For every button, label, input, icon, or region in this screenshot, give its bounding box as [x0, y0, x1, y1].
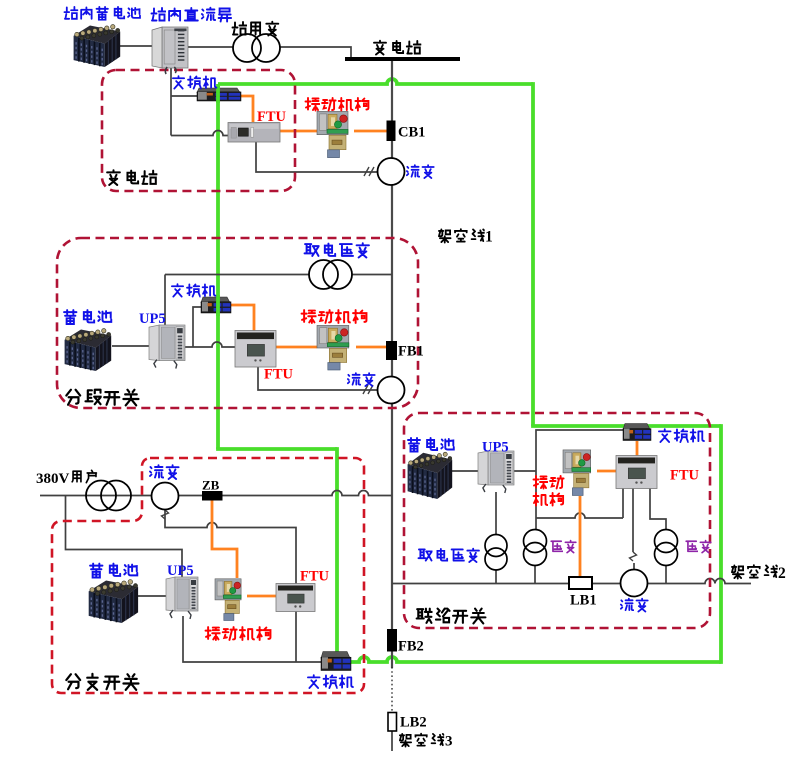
svg-text:FTU: FTU	[300, 569, 330, 585]
wire junction up to switch2	[193, 307, 201, 347]
battery 蓄电池 (联络)	[408, 452, 453, 499]
label 交换机 (联络)	[659, 429, 704, 442]
wire FTU2 bottom to CT2	[258, 367, 378, 390]
orange switch1 to FTU1	[240, 96, 253, 122]
PT 取电压变 (联络)	[485, 535, 507, 571]
wire battery3 to UP5	[138, 595, 166, 597]
green fiber over station switch	[216, 86, 220, 103]
green fiber right vertical lower	[719, 424, 723, 664]
380V feeder horizontal with hops	[40, 491, 392, 496]
CT 流变 (station)	[378, 158, 405, 185]
label 操动机构 (station)	[306, 98, 369, 111]
UPS UP5 (联络)	[478, 451, 514, 493]
main feeder vertical line	[391, 61, 393, 629]
battery 站内蓄电池	[74, 25, 121, 67]
wire DC panel down to switch and FTU	[171, 67, 228, 136]
label 操动机构 (分支)	[206, 627, 271, 640]
orange switch2 to FTU2	[231, 305, 254, 331]
svg-text:FTU: FTU	[670, 468, 700, 484]
label 流变 (分段)	[348, 373, 375, 386]
FTU (分支)	[276, 584, 315, 612]
label 分段开关	[66, 390, 138, 406]
svg-text:UP5: UP5	[167, 563, 194, 579]
label 取电压变 (联络)	[418, 549, 479, 562]
label 流变 (联络)	[621, 599, 648, 612]
label 交换机 (分段)	[172, 284, 216, 296]
operating mechanism 操动机构 (station)	[317, 111, 348, 157]
switch FB2	[387, 629, 397, 652]
DC panel 站内直流屏	[152, 27, 188, 74]
label 压变 2	[686, 541, 711, 553]
wire UP5 bottom to switch3	[183, 616, 321, 662]
wire battery4 to UP5-4	[452, 470, 478, 472]
transformer 380V用户	[86, 481, 131, 511]
battery 蓄电池 (分支)	[89, 580, 138, 623]
orange mech1 to CB1	[354, 130, 387, 133]
label 变电站 top	[374, 41, 421, 55]
label 蓄电池 (分支)	[90, 564, 137, 578]
label 蓄电池 (联络)	[408, 438, 454, 452]
svg-text:FB2: FB2	[398, 639, 424, 655]
squiggle below CT3	[162, 510, 169, 519]
wire horizontal to FTU4 with hop over orange	[536, 488, 623, 518]
CT 流变 (分段)	[378, 377, 405, 404]
label 变电站 box	[107, 170, 157, 185]
label 操动机构 (分段)	[302, 310, 367, 323]
wire FTU3 bottom to bus	[295, 611, 297, 662]
orange FTU2 to mech2	[276, 346, 317, 349]
UPS UP5 (分支)	[166, 577, 198, 619]
wire drop to UP5 branch	[66, 496, 183, 579]
slash marks on CT1 wire	[364, 167, 374, 176]
wire switch4 left loop	[536, 430, 623, 530]
ethernet switch 交换机 (分段)	[201, 297, 231, 313]
FTU (分段)	[235, 331, 276, 368]
UPS UP5 (分段)	[149, 325, 185, 369]
slash marks on CT2 wire	[363, 385, 373, 394]
circuit breaker CB1	[387, 121, 396, 142]
PT 取电压变 (分段)	[309, 260, 352, 289]
FTU (联络)	[616, 456, 657, 489]
wire UP5 to FTU2 with hop over green	[182, 342, 235, 347]
wire FB2 to line	[391, 651, 393, 668]
wire FTU4 right to PT2	[650, 488, 666, 530]
CT 流变 (分支)	[152, 483, 179, 510]
dashed box 变电站	[102, 70, 295, 191]
green fiber right vertical upper	[531, 82, 535, 426]
wire 取电压变 horizontal	[165, 275, 392, 329]
ethernet switch 交换机 (station)	[197, 88, 241, 101]
svg-text:FTU: FTU	[257, 109, 287, 125]
operating mechanism 操动机构 (分段)	[317, 325, 349, 370]
label 取电压变 (分段)	[305, 243, 369, 257]
orange mech4 down to LB1	[579, 496, 582, 577]
green fiber right horizontal	[531, 424, 721, 428]
label 操动机构 (联络)	[534, 476, 564, 489]
switch LB2	[388, 713, 397, 732]
label 流变 (station)	[407, 165, 434, 178]
label 架空线1	[439, 229, 484, 242]
svg-text:FTU: FTU	[264, 367, 294, 383]
CT 流变 (联络)	[621, 570, 648, 597]
label 站内蓄电池	[64, 7, 140, 20]
wire CT3 bottom to FTU3	[165, 510, 296, 585]
wire FTU4 mid down to CT4	[633, 488, 634, 570]
green fiber mid vertical	[335, 447, 339, 662]
wire below LB2 架空线3	[391, 731, 393, 751]
label 交换机 (station)	[173, 76, 217, 88]
wire PT1 to line	[534, 565, 536, 584]
wire battery2 to UP5	[112, 345, 150, 347]
wire UP5-4 down to 取电压变	[495, 492, 497, 535]
switch FB1	[386, 341, 397, 360]
label 架空线2	[732, 565, 777, 578]
svg-text:UP5: UP5	[482, 440, 509, 456]
orange switch4 to FTU4	[636, 441, 639, 456]
orange mech4 to FTU4	[597, 470, 616, 473]
orange mech3 to FTU3	[247, 595, 276, 598]
label 架空线3	[400, 734, 444, 747]
PT 压变 1	[524, 530, 547, 566]
wire transformer to busbar	[280, 47, 351, 58]
PT 压变 2	[655, 530, 678, 566]
label 蓄电池 (分段)	[64, 310, 111, 324]
svg-text:2: 2	[778, 565, 786, 582]
dashed box 分支开关	[52, 458, 364, 693]
ethernet switch 交换机 (分支)	[321, 652, 351, 671]
orange mech2 to FB1	[356, 346, 386, 349]
label 压变 1	[551, 541, 576, 553]
label 交换机 (分支)	[308, 675, 353, 688]
wire 取电压变 to line	[495, 570, 497, 584]
battery 蓄电池 (分段)	[65, 329, 112, 371]
svg-text:UP5: UP5	[139, 311, 166, 327]
svg-text:ZB: ZB	[202, 478, 220, 493]
operating mechanism 操动机构 (联络)	[563, 450, 591, 496]
operating mechanism 操动机构 (分支)	[215, 579, 241, 621]
transformer 站用变	[233, 34, 280, 62]
wire DC panel to station transformer	[187, 46, 233, 48]
svg-text:LB1: LB1	[570, 593, 597, 609]
wire PT2 to line	[665, 565, 667, 584]
svg-text:380V: 380V	[36, 471, 70, 487]
wire FTU1 bottom to CT1	[256, 142, 378, 172]
switch LB1	[569, 577, 592, 589]
dashed box 分段开关	[57, 238, 418, 408]
svg-text:LB2: LB2	[400, 715, 427, 731]
green fiber left vertical	[216, 84, 220, 449]
ethernet switch 交换机 (联络)	[623, 424, 651, 441]
FTU (station)	[228, 123, 280, 143]
dotted line below FB2	[391, 667, 393, 711]
架空线2 horizontal with hops	[392, 579, 751, 584]
green fiber bottom horizontal	[337, 657, 721, 662]
green fiber over section switch	[216, 295, 220, 316]
wire UP5-4 to junction	[514, 470, 536, 472]
orange FTU1 to mech1	[280, 130, 318, 133]
svg-text:CB1: CB1	[398, 125, 425, 141]
dashed box 联络开关	[404, 413, 710, 628]
svg-text:1: 1	[485, 229, 493, 246]
label 联络开关	[417, 609, 486, 624]
svg-text:FB1: FB1	[398, 344, 424, 360]
orange ZB to mech3	[212, 500, 237, 578]
label 站用变	[233, 22, 279, 36]
green fiber ring top horizontal	[218, 79, 533, 84]
squiggle above CT4	[630, 552, 637, 561]
label 站内直流屏	[152, 8, 232, 22]
label 分支开关	[66, 674, 138, 690]
wire battery to DC panel	[120, 45, 154, 47]
label 流变 (分支)	[150, 465, 179, 479]
green fiber mid horizontal	[216, 447, 337, 451]
busbar 变电站	[345, 57, 460, 61]
svg-text:3: 3	[445, 734, 453, 750]
switch ZB	[202, 491, 223, 501]
